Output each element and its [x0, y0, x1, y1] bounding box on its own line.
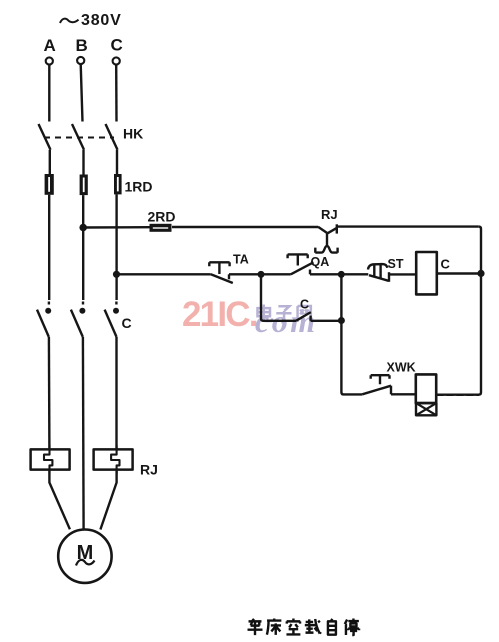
wire ST to coil C — [389, 273, 416, 275]
wire C contact to heater — [115, 337, 117, 449]
watermark 21IC. — [182, 297, 258, 332]
wire phase C to TA — [117, 273, 211, 275]
wire RJ to right rail — [337, 225, 479, 227]
wire phase B top — [81, 64, 83, 121]
wire phase C top — [115, 65, 118, 122]
brake electromagnet coil — [416, 374, 436, 403]
wire C to fuse — [116, 150, 118, 174]
wire B contact to motor — [82, 337, 85, 530]
knife switch HK pole B — [72, 124, 84, 150]
wire TA to node — [229, 273, 261, 275]
wire B tick above contact — [82, 302, 84, 305]
wire A to fuse — [49, 150, 51, 174]
node junction self-hold right — [338, 317, 345, 324]
node junction on phase C (control feed) — [113, 271, 120, 278]
svg-text:1RD: 1RD — [125, 179, 153, 195]
wire node to ST — [341, 273, 368, 275]
svg-text:C: C — [122, 315, 132, 331]
wire A tick above contact — [48, 302, 50, 305]
svg-text:RJ: RJ — [140, 462, 158, 478]
wire XWK to brake magnet — [391, 393, 416, 395]
speed relay contact ST — [368, 264, 389, 282]
svg-text:ST: ST — [388, 257, 404, 271]
wire 2RD fuse to RJ contact — [172, 226, 318, 228]
caption 车床空载自停 — [248, 619, 360, 636]
push button QA (NO start) — [288, 254, 314, 274]
motor M — [58, 530, 111, 583]
wire phase A top — [48, 65, 50, 122]
main contact C pole C — [105, 308, 119, 337]
thermal heater RJ pole A — [31, 445, 70, 474]
wire brake to rail (faded) — [436, 394, 479, 396]
terminal A — [46, 57, 53, 64]
limit switch XWK (NO) — [362, 375, 391, 394]
svg-text:B: B — [76, 36, 88, 55]
svg-text:C: C — [111, 36, 123, 55]
wire A fuse to contact — [48, 195, 50, 300]
wire C fuse to contact — [115, 194, 117, 300]
wire A heater to motor — [49, 470, 70, 530]
node junction on phase B (control feed) — [79, 224, 87, 232]
svg-text:TA: TA — [233, 253, 249, 267]
push button TA (NC stop) — [209, 262, 233, 283]
svg-text:380V: 380V — [81, 12, 122, 29]
wire vertical branch from QA node — [341, 274, 362, 394]
svg-text:C: C — [300, 298, 309, 312]
auxiliary contact C (self hold) — [296, 312, 311, 321]
fuse 1RD pole B — [80, 175, 88, 196]
contactor coil C — [416, 252, 437, 294]
knife switch HK pole C — [106, 124, 118, 150]
fuse 1RD pole C — [114, 174, 122, 194]
brake symbol crossed box — [416, 403, 436, 415]
terminal C — [113, 57, 120, 64]
main contact C pole A — [37, 308, 51, 337]
svg-text:RJ: RJ — [321, 207, 338, 222]
main contact C pole B — [71, 308, 86, 337]
right rail — [437, 227, 481, 395]
HK linkage dashed line — [44, 137, 114, 139]
wire QA to node — [310, 273, 341, 275]
wire C heater to motor — [100, 470, 116, 530]
svg-text:2RD: 2RD — [148, 209, 176, 225]
svg-text:QA: QA — [311, 255, 330, 269]
wire A contact to heater — [48, 337, 51, 449]
wire B to fuse — [82, 150, 84, 175]
wire B fuse to contact — [82, 195, 84, 300]
svg-text:C: C — [441, 257, 451, 272]
thermal heater RJ pole C — [94, 445, 133, 474]
svg-text:A: A — [44, 36, 56, 55]
knife switch HK pole A — [39, 124, 51, 150]
node junction on rail — [477, 270, 484, 277]
terminal B — [77, 57, 84, 64]
wire 2RD line left segment — [83, 226, 150, 229]
svg-text:XWK: XWK — [387, 361, 416, 375]
wire self-hold branch left drop — [261, 274, 296, 320]
wire C tick above contact — [115, 302, 117, 305]
node branch point (self-hold left) — [258, 271, 265, 278]
node junction after QA — [338, 271, 345, 278]
label ~380V — [60, 12, 122, 29]
fuse 1RD pole A — [45, 174, 54, 195]
fuse 2RD — [150, 224, 172, 232]
watermark .com — [255, 305, 318, 337]
wire coil to rail — [437, 272, 481, 274]
thermal relay contact RJ (NC) — [315, 224, 337, 253]
wire node to QA — [261, 273, 291, 275]
svg-text:HK: HK — [123, 126, 143, 142]
wire aux contact to vertical — [311, 320, 342, 322]
